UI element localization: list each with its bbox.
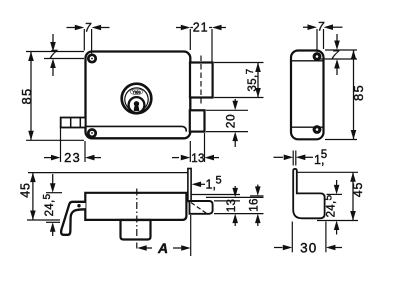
dim 35,7 (right of bolt)	[214, 63, 264, 98]
dim 85 (left)	[19, 52, 84, 141]
strike plate (plan)	[188, 169, 191, 202]
dim 45 (plan left)	[19, 173, 188, 220]
dim 45 (strike far right)	[298, 172, 366, 220]
svg-text:A: A	[157, 240, 168, 256]
dim 16 (plan bolt wide part)	[249, 185, 261, 227]
dim 85 (right)	[325, 50, 366, 140]
svg-text:30: 30	[300, 240, 317, 255]
svg-text:23: 23	[64, 150, 81, 165]
dim 13 (plan bolt)	[226, 186, 238, 226]
svg-text:13: 13	[226, 199, 238, 213]
dim 24,5 (strike right)	[323, 180, 342, 235]
side screw top	[313, 52, 322, 61]
svg-text:85: 85	[19, 88, 34, 105]
plan body	[85, 193, 186, 220]
bolt (plan)	[190, 201, 213, 214]
extension lines right of bolt	[192, 195, 264, 214]
dim 21 (top of bolt)	[176, 21, 226, 62]
lever handle	[61, 202, 85, 235]
dim 13 (bottom of front view)	[172, 133, 219, 165]
dim 7 (top of front)	[67, 23, 110, 54]
svg-text:20: 20	[224, 114, 238, 129]
dim 20 (lower bolt)	[206, 99, 248, 147]
side screw bottom	[313, 125, 322, 134]
svg-text:Yale: Yale	[132, 89, 141, 94]
dim 30 (strike bottom)	[274, 222, 342, 256]
svg-text:7: 7	[85, 23, 92, 35]
dim 23 (bottom left)	[44, 126, 101, 165]
svg-text:85: 85	[351, 84, 366, 101]
svg-text:45: 45	[351, 182, 365, 198]
screw bottom-left	[88, 130, 95, 137]
svg-text:45: 45	[19, 182, 33, 198]
bolt upper	[190, 63, 213, 98]
dim 1,5 (plate thickness, below side view)	[274, 149, 328, 167]
dim 1,5 (plan strike plate)	[192, 175, 222, 192]
svg-text:21: 21	[193, 21, 209, 35]
svg-text:5: 5	[321, 149, 327, 161]
strike body	[293, 169, 324, 218]
centerline (cylinder axis)	[136, 189, 138, 249]
svg-text:16: 16	[249, 198, 261, 212]
bolt centerline	[200, 56, 202, 105]
svg-text:13: 13	[191, 153, 205, 165]
left strip	[61, 118, 86, 128]
bolt lower	[190, 110, 205, 131]
lock body	[86, 52, 191, 139]
side body	[291, 51, 324, 140]
cylinder U1	[122, 84, 152, 114]
dim 7 (right of side view, top to screw)	[320, 34, 357, 75]
dim 24,5 (plan left)	[42, 174, 62, 236]
dim A (bottom)	[137, 215, 191, 256]
dim 7 (left vertical, body top to screw)	[26, 34, 84, 76]
screw top-left	[88, 55, 95, 62]
cylinder housing (plan)	[121, 220, 151, 240]
dim 7 (top of side view)	[303, 21, 343, 52]
inner base plate line	[86, 126, 186, 131]
